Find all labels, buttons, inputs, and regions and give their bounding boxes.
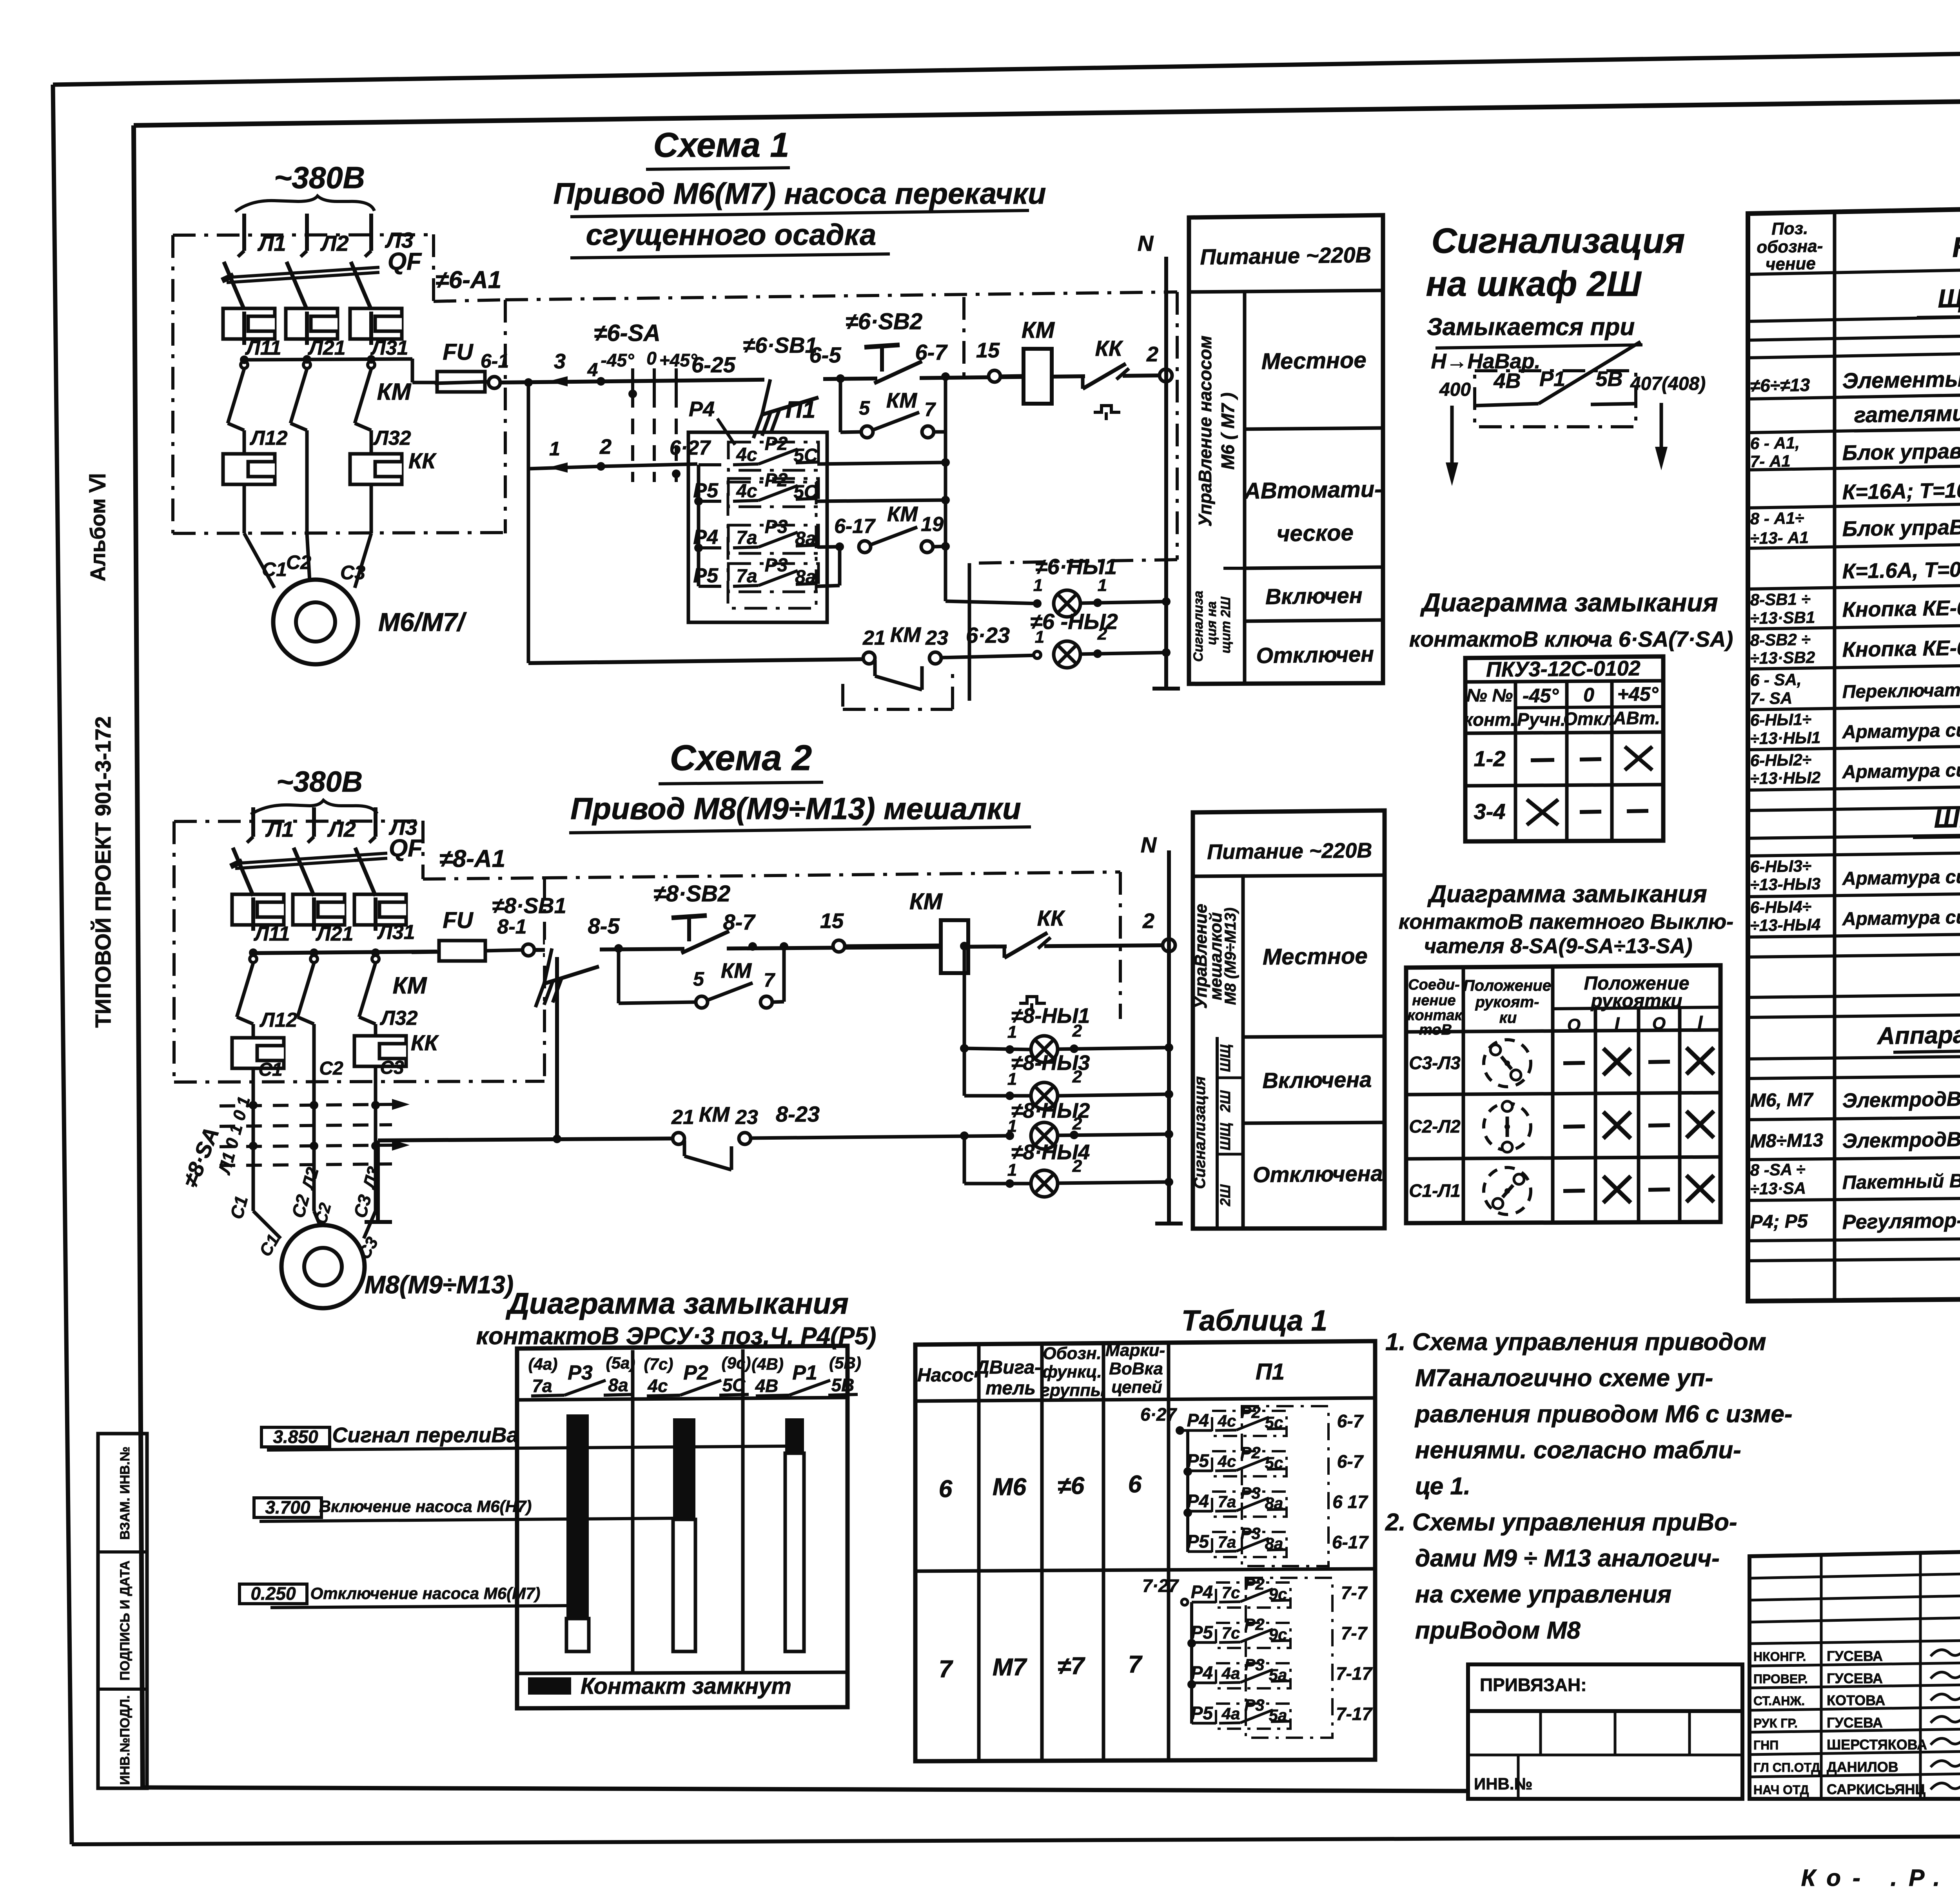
- svg-text:-45°: -45°: [601, 350, 634, 370]
- schema 2 lamp 8-HL2: [1005, 1099, 1173, 1149]
- svg-text:0.250: 0.250: [250, 1583, 296, 1604]
- svg-text:N: N: [1138, 231, 1154, 256]
- svg-text:Питание ~220В: Питание ~220В: [1200, 242, 1372, 269]
- schema 2 KM main contacts: [237, 955, 427, 1024]
- svg-text:Р3: Р3: [1244, 1655, 1264, 1674]
- svg-text:8-1: 8-1: [497, 915, 526, 938]
- svg-text:2: 2: [1142, 909, 1154, 933]
- svg-text:М7: М7: [993, 1654, 1027, 1681]
- svg-text:М6 ( М7 ): М6 ( М7 ): [1218, 393, 1238, 470]
- svg-text:Р4: Р4: [693, 526, 718, 549]
- svg-text:6-НЫ2÷: 6-НЫ2÷: [1750, 750, 1811, 770]
- svg-text:ГЛ СП.ОТД: ГЛ СП.ОТД: [1753, 1760, 1820, 1775]
- svg-text:Сигнализа: Сигнализа: [1191, 591, 1206, 662]
- svg-text:(9с): (9с): [722, 1354, 751, 1372]
- svg-text:Сигнализация: Сигнализация: [1432, 221, 1685, 261]
- wire to lamp rung 1: [946, 546, 1037, 604]
- signal to cabinet 2Sh title: [1426, 221, 1685, 304]
- svg-text:Р3: Р3: [1240, 1524, 1260, 1543]
- svg-text:М6: М6: [993, 1474, 1027, 1501]
- svg-text:15: 15: [820, 909, 844, 933]
- schema 2 rung wire 8-1 to 2: [534, 945, 1163, 950]
- svg-text:М6/М7/: М6/М7/: [378, 607, 467, 636]
- schema 2 supply brace: [251, 800, 377, 814]
- svg-text:4с: 4с: [736, 481, 757, 502]
- svg-text:О: О: [1652, 1014, 1666, 1033]
- svg-text:Наименование: Наименование: [1952, 227, 1960, 263]
- svg-text:Откл: Откл: [1563, 709, 1614, 729]
- svg-text:КМ: КМ: [377, 379, 412, 405]
- svg-text:7а: 7а: [1218, 1533, 1236, 1551]
- svg-text:Р3: Р3: [765, 555, 788, 576]
- svg-text:8-7: 8-7: [723, 910, 756, 934]
- dash-dot A1 boundary to control section (schema 2): [544, 872, 1120, 1019]
- svg-text:Л32: Л32: [379, 1007, 418, 1030]
- schema 2 thermal contact KK: [1004, 906, 1065, 1011]
- svg-text:КМ: КМ: [721, 959, 752, 983]
- aux contact 5 KM 7: [840, 377, 946, 547]
- node 6-5: [809, 343, 845, 383]
- component list table grid: [1748, 198, 1960, 1301]
- schema 2 phase stubs L1 L2 L3: [253, 807, 417, 841]
- svg-text:КМ: КМ: [1022, 317, 1055, 343]
- svg-text:3: 3: [554, 350, 566, 373]
- svg-text:6-7: 6-7: [1337, 1451, 1364, 1472]
- svg-text:КМ: КМ: [890, 623, 921, 647]
- svg-text:2: 2: [1146, 343, 1158, 366]
- svg-text:равления приводом М6 с изме-: равления приводом М6 с изме-: [1414, 1401, 1793, 1428]
- svg-text:ГУСЕВА: ГУСЕВА: [1827, 1670, 1883, 1686]
- svg-text:6-1: 6-1: [481, 350, 509, 372]
- svg-text:Местное: Местное: [1261, 347, 1367, 374]
- svg-text:≠6·SB1: ≠6·SB1: [743, 333, 817, 357]
- ERSU level lines and labels: [240, 1423, 785, 1608]
- svg-text:23: 23: [735, 1106, 758, 1129]
- neutral line N: [1138, 231, 1180, 689]
- svg-text:Контакт замкнут: Контакт замкнут: [581, 1673, 791, 1699]
- svg-text:407(408): 407(408): [1630, 373, 1706, 394]
- contact 15 - coil KM: [976, 317, 1055, 404]
- svg-text:Л11: Л11: [253, 923, 290, 945]
- svg-text:щит 2Ш: щит 2Ш: [1218, 596, 1233, 653]
- key 6-SA diagram title: [1409, 588, 1733, 651]
- svg-text:АВтомати-: АВтомати-: [1243, 477, 1382, 504]
- closes-at note: [1427, 314, 1642, 373]
- svg-text:СТ.АНЖ.: СТ.АНЖ.: [1753, 1694, 1805, 1708]
- svg-text:1: 1: [1098, 576, 1107, 595]
- svg-text:8-5: 8-5: [588, 914, 620, 938]
- node 4 junction: [587, 360, 605, 386]
- svg-text:5: 5: [859, 397, 870, 419]
- packet switch rows: [1409, 1040, 1714, 1215]
- svg-text:ПКУ3-12С-0102: ПКУ3-12С-0102: [1486, 656, 1641, 681]
- node 8-7: [723, 910, 757, 951]
- fuse FU: [435, 339, 509, 392]
- svg-text:(4а): (4а): [528, 1355, 558, 1373]
- svg-text:÷13·SB2: ÷13·SB2: [1750, 648, 1815, 667]
- svg-text:8-SB1 ÷: 8-SB1 ÷: [1750, 590, 1811, 609]
- svg-text:3.700: 3.700: [265, 1497, 310, 1517]
- svg-text:К=1.6А, Т=0,63А; цепь упраВлен: К=1.6А, Т=0,63А; цепь упраВления ~220В: [1842, 553, 1960, 583]
- svg-text:Кнопка КЕ-011У3 исп. 23 ТУ16-5: Кнопка КЕ-011У3 исп. 23 ТУ16-526.407-76: [1842, 591, 1960, 622]
- svg-text:2: 2: [1097, 624, 1107, 644]
- svg-text:2: 2: [1072, 1021, 1082, 1041]
- svg-text:5В: 5В: [1595, 367, 1622, 391]
- svg-text:21: 21: [671, 1106, 694, 1129]
- svg-text:19: 19: [921, 513, 944, 536]
- pushbutton 6-SB2 (NC with T actuator): [846, 309, 922, 386]
- wire rung 2 (1-2 to 6-27): [524, 378, 697, 473]
- svg-text:4а: 4а: [1221, 1704, 1240, 1723]
- svg-text:÷13·SB1: ÷13·SB1: [1750, 608, 1815, 627]
- svg-text:Р1: Р1: [1539, 367, 1565, 391]
- svg-text:Щит ШЩ: Щит ШЩ: [1938, 282, 1960, 313]
- svg-text:Шкаф 2 Ш: Шкаф 2 Ш: [1934, 802, 1960, 833]
- svg-text:ГУСЕВА: ГУСЕВА: [1827, 1715, 1883, 1731]
- svg-text:7: 7: [924, 399, 936, 421]
- component table rows text: [1750, 282, 1960, 1234]
- schema 2 bus to fuse 8-1: [249, 948, 437, 957]
- schema 2 lamp 8-HL1: [960, 942, 1173, 1062]
- svg-text:÷13-НЫ3: ÷13-НЫ3: [1750, 874, 1820, 894]
- svg-text:тель: тель: [985, 1378, 1036, 1399]
- svg-text:Поз.: Поз.: [1771, 219, 1808, 239]
- svg-text:6-7: 6-7: [915, 340, 948, 364]
- svg-text:М7аналогично схеме уп-: М7аналогично схеме уп-: [1415, 1365, 1713, 1392]
- svg-text:6-НЫ3÷: 6-НЫ3÷: [1750, 857, 1811, 876]
- svg-text:Р2: Р2: [765, 433, 788, 454]
- thermal element boxes row 2 (L12 L32) and KK: [223, 427, 437, 533]
- svg-text:ки: ки: [1499, 1009, 1517, 1026]
- svg-text:Р3: Р3: [765, 517, 788, 537]
- svg-text:Р3: Р3: [1244, 1696, 1264, 1714]
- svg-text:ПРОВЕР.: ПРОВЕР.: [1753, 1672, 1808, 1686]
- schema 1 title: [554, 125, 1046, 258]
- svg-text:Привод М6(М7) насоса перекачки: Привод М6(М7) насоса перекачки: [554, 177, 1046, 210]
- svg-text:ИНВ.№: ИНВ.№: [1474, 1775, 1532, 1793]
- svg-text:1: 1: [1035, 627, 1044, 647]
- wire rung 6-23 and lamp 6-HL2: [941, 563, 1171, 701]
- schema 2 block A1 boundary (dash-dot): [174, 821, 544, 1082]
- schema 2 circuit breaker QF: [230, 835, 423, 896]
- svg-text:Р5: Р5: [693, 564, 719, 587]
- svg-text:Кнопка КЕ-011У3 исп. 24 ТУ16-5: Кнопка КЕ-011У3 исп. 24 ТУ16-526.407-76: [1842, 631, 1960, 662]
- svg-text:≠6-А1: ≠6-А1: [436, 266, 501, 294]
- svg-text:6·27: 6·27: [670, 437, 711, 459]
- svg-text:Л1: Л1: [257, 231, 286, 256]
- svg-text:Арматура сигнальная АСЛ-11У2 Т: Арматура сигнальная АСЛ-11У2 ТУ16-535.68…: [1842, 755, 1960, 783]
- circuit breaker QF: [222, 248, 422, 310]
- overload heater boxes row 1 (L11 L21 L31): [223, 308, 408, 359]
- svg-text:КМ: КМ: [886, 389, 917, 412]
- svg-text:6: 6: [1128, 1471, 1142, 1498]
- svg-text:дами М9 ÷ М13 аналогич-: дами М9 ÷ М13 аналогич-: [1415, 1545, 1720, 1572]
- svg-text:FU: FU: [443, 339, 474, 365]
- svg-text:М8(М9÷М13): М8(М9÷М13): [365, 1271, 514, 1299]
- ERSU closing diagram title: [476, 1287, 877, 1350]
- svg-text:(5В): (5В): [829, 1354, 861, 1372]
- svg-text:8-23: 8-23: [776, 1102, 820, 1126]
- svg-text:≠8·SA: ≠8·SA: [178, 1124, 224, 1190]
- svg-text:7: 7: [1128, 1651, 1143, 1678]
- svg-text:5В: 5В: [831, 1375, 855, 1395]
- svg-text:Р3: Р3: [568, 1361, 593, 1384]
- svg-text:6-25: 6-25: [691, 352, 736, 377]
- svg-text:ВЗАМ. ИНВ.№: ВЗАМ. ИНВ.№: [118, 1447, 132, 1540]
- svg-text:8-SB2 ÷: 8-SB2 ÷: [1750, 630, 1811, 649]
- svg-text:Ручн.: Ручн.: [1517, 709, 1566, 730]
- svg-text:Ко- .Р. . Е Г .Р: Ко- .Р. . Е Г .Р: [1801, 1865, 1960, 1891]
- ERSU level bars: [566, 1414, 804, 1651]
- svg-text:С2: С2: [288, 1192, 314, 1220]
- svg-text:7с: 7с: [1222, 1624, 1240, 1642]
- svg-text:контактоВ ключа 6·SA(7·SA): контактоВ ключа 6·SA(7·SA): [1409, 627, 1733, 651]
- svg-text:Л12: Л12: [259, 1009, 298, 1031]
- svg-text:рукоятки: рукоятки: [1590, 991, 1682, 1012]
- svg-text:Блок управления РБУ5101-03А2Р,: Блок управления РБУ5101-03А2Р, ~380В.: [1842, 435, 1960, 465]
- svg-text:7а: 7а: [1218, 1492, 1236, 1511]
- svg-text:7-7: 7-7: [1341, 1583, 1368, 1603]
- svg-text:ческое: ческое: [1276, 520, 1354, 547]
- svg-text:Элементы управления электрод: Элементы управления электродВи-: [1842, 362, 1960, 393]
- svg-text:7-17: 7-17: [1336, 1663, 1373, 1684]
- svg-text:≠8·SB2: ≠8·SB2: [653, 881, 730, 906]
- svg-text:7·27: 7·27: [1142, 1575, 1179, 1596]
- svg-text:К=16А; Т=10А; цепь упраВления,: К=16А; Т=10А; цепь упраВления,~ 220В: [1842, 474, 1960, 504]
- svg-text:4В: 4В: [1493, 369, 1521, 393]
- svg-text:Л2: Л2: [298, 1165, 322, 1192]
- svg-text:ПОДПИСЬ И ДАТА: ПОДПИСЬ И ДАТА: [118, 1561, 132, 1680]
- svg-text:ПРИВЯЗАН:: ПРИВЯЗАН:: [1480, 1675, 1587, 1695]
- svg-text:≠6÷≠13: ≠6÷≠13: [1750, 375, 1810, 396]
- svg-text:I: I: [1698, 1012, 1703, 1032]
- svg-text:Л3: Л3: [359, 1164, 383, 1191]
- svg-text:С3: С3: [340, 562, 365, 584]
- svg-text:7: 7: [939, 1656, 953, 1683]
- ERSU chart box: [517, 1346, 848, 1708]
- svg-text:КОТОВА: КОТОВА: [1827, 1692, 1885, 1708]
- title block privyazan table: [1468, 1664, 1742, 1799]
- svg-text:Переключатель ПКУ3-12С-0102 ТУ: Переключатель ПКУ3-12С-0102 ТУ16-526.047…: [1842, 674, 1960, 702]
- svg-text:Л11: Л11: [245, 337, 281, 359]
- svg-text:Отключена: Отключена: [1253, 1161, 1383, 1187]
- svg-text:≠6·SB2: ≠6·SB2: [846, 309, 922, 334]
- svg-text:ШЕРСТЯКОВА: ШЕРСТЯКОВА: [1827, 1737, 1927, 1753]
- svg-text:6-7: 6-7: [1337, 1411, 1364, 1431]
- svg-text:С1: С1: [258, 1059, 282, 1080]
- notes text block: [1385, 1329, 1793, 1644]
- svg-text:приВодом М8: приВодом М8: [1415, 1617, 1581, 1644]
- svg-text:7с: 7с: [1222, 1583, 1240, 1602]
- svg-text:Диаграмма замыкания: Диаграмма замыкания: [1420, 588, 1718, 617]
- svg-text:23: 23: [925, 627, 948, 649]
- svg-text:Л32: Л32: [373, 427, 411, 450]
- svg-text:ДВига-: ДВига-: [974, 1357, 1041, 1378]
- schema 2 motor M8: [226, 1192, 514, 1308]
- svg-text:÷13·SA: ÷13·SA: [1750, 1179, 1806, 1198]
- selector switch 6-SA (dashed contacts): [594, 320, 736, 482]
- svg-text:FU: FU: [443, 908, 474, 933]
- schema 2 overload boxes row1: [232, 894, 415, 945]
- svg-text:2: 2: [1072, 1157, 1082, 1176]
- svg-text:КК: КК: [408, 448, 437, 473]
- svg-text:контактоВ пакетного Выклю-: контактоВ пакетного Выклю-: [1399, 910, 1733, 934]
- svg-text:М8 (М9÷М13): М8 (М9÷М13): [1222, 908, 1239, 1005]
- svg-text:Таблица 1: Таблица 1: [1181, 1304, 1327, 1337]
- svg-text:С2-Л2: С2-Л2: [1409, 1116, 1461, 1137]
- svg-text:П1: П1: [1256, 1359, 1285, 1385]
- svg-text:21: 21: [862, 627, 886, 649]
- table 1 mini contact chains (pump 6): [1140, 1403, 1369, 1566]
- svg-text:Замыкается при: Замыкается при: [1427, 314, 1635, 341]
- svg-text:2: 2: [1072, 1067, 1082, 1086]
- svg-text:С1-Л1: С1-Л1: [1409, 1180, 1460, 1201]
- packet switch contact table: [1406, 965, 1720, 1223]
- svg-text:6·23: 6·23: [966, 623, 1010, 647]
- component table headers: [1757, 219, 1960, 274]
- svg-text:4В: 4В: [755, 1376, 779, 1396]
- svg-text:8 - А1÷: 8 - А1÷: [1750, 509, 1804, 528]
- terminal block P1 outline: [688, 397, 827, 622]
- bottom smudge text: [1801, 1865, 1960, 1891]
- signal lamp 6-HL1: [1033, 554, 1171, 617]
- svg-text:1. Схема управления приводом: 1. Схема управления приводом: [1385, 1329, 1766, 1356]
- svg-text:группы: группы: [1040, 1381, 1105, 1400]
- svg-text:Отключение насоса М6(М7): Отключение насоса М6(М7): [310, 1584, 541, 1603]
- svg-text:Включен: Включен: [1265, 583, 1363, 609]
- svg-text:2Ш: 2Ш: [1217, 1090, 1233, 1113]
- svg-text:7: 7: [764, 969, 775, 991]
- svg-text:ВоВка: ВоВка: [1109, 1359, 1163, 1378]
- schema 2 thermal boxes row2 and KK: [232, 1007, 439, 1082]
- svg-text:Р2: Р2: [1240, 1443, 1260, 1462]
- schema 2 aux contact 5 KM 7: [619, 942, 788, 1008]
- svg-text:5: 5: [693, 968, 704, 990]
- svg-text:4с: 4с: [1218, 1452, 1236, 1470]
- svg-text:Р4: Р4: [1191, 1582, 1213, 1602]
- svg-text:РУК ГР.: РУК ГР.: [1753, 1716, 1798, 1730]
- svg-text:це 1.: це 1.: [1415, 1473, 1470, 1500]
- svg-text:Регулятор- сигнализатор уроВня: Регулятор- сигнализатор уроВня ЭРСУ-3: [1842, 1204, 1960, 1234]
- svg-text:0: 0: [646, 348, 657, 368]
- svg-text:3.850: 3.850: [273, 1427, 318, 1447]
- svg-text:6-17: 6-17: [1332, 1532, 1369, 1552]
- svg-text:конт.: конт.: [1464, 709, 1515, 730]
- svg-text:Л12: Л12: [249, 427, 288, 450]
- schema 2 title: [569, 738, 1031, 833]
- svg-text:7а: 7а: [736, 566, 757, 587]
- table 1 mini contact chains (pump 7): [1142, 1575, 1373, 1738]
- svg-text:Р5: Р5: [1187, 1450, 1210, 1471]
- packet switch 8-SA (dashed rows): [178, 1082, 410, 1211]
- svg-text:Р4: Р4: [1191, 1662, 1213, 1683]
- svg-text:8а: 8а: [608, 1375, 628, 1395]
- svg-text:чение: чение: [1765, 254, 1816, 274]
- svg-text:Л21: Л21: [315, 923, 354, 945]
- thermal relay contact KK: [1083, 336, 1129, 420]
- svg-text:М6, М7: М6, М7: [1750, 1089, 1814, 1111]
- svg-text:QF: QF: [388, 248, 422, 275]
- ERSU legend contact closed: [528, 1673, 791, 1699]
- svg-text:КК: КК: [1095, 336, 1123, 361]
- level relay contacts in P1 (4 rows): [670, 433, 950, 592]
- svg-text:(5а): (5а): [606, 1354, 635, 1372]
- svg-text:на шкаф 2Ш: на шкаф 2Ш: [1426, 265, 1642, 304]
- svg-text:ШЩ: ШЩ: [1217, 1044, 1233, 1072]
- svg-text:Л1: Л1: [265, 817, 294, 841]
- svg-text:÷13-НЫ4: ÷13-НЫ4: [1750, 915, 1820, 935]
- svg-text:Р5: Р5: [1191, 1622, 1214, 1642]
- svg-text:С3: С3: [380, 1057, 404, 1078]
- svg-text:≠7: ≠7: [1058, 1653, 1085, 1680]
- svg-text:2. Схемы управления приВо-: 2. Схемы управления приВо-: [1385, 1509, 1737, 1536]
- svg-text:чателя 8-SА(9-SА÷13-SА): чателя 8-SА(9-SА÷13-SА): [1424, 934, 1693, 958]
- svg-text:1: 1: [549, 438, 560, 460]
- svg-text:О: О: [1567, 1015, 1581, 1035]
- svg-text:~380В: ~380В: [274, 160, 365, 195]
- svg-text:Арматура сигнальная АСЛ-11У2: Арматура сигнальная АСЛ-11У2 ТУ16-535.68…: [1842, 861, 1960, 889]
- svg-text:Р4: Р4: [689, 397, 715, 421]
- schema 2 return line down from 8-1: [365, 946, 674, 1222]
- svg-text:6 - А1,: 6 - А1,: [1750, 433, 1800, 453]
- svg-text:Включена: Включена: [1262, 1067, 1372, 1093]
- svg-text:Сигнал перелиВа: Сигнал перелиВа: [332, 1423, 518, 1447]
- pushbutton 8-SB2: [653, 881, 730, 955]
- svg-text:Р5: Р5: [1191, 1703, 1214, 1723]
- svg-text:7а: 7а: [532, 1376, 552, 1396]
- svg-text:1: 1: [1007, 1070, 1017, 1089]
- svg-text:ция на: ция на: [1204, 601, 1219, 645]
- packet switch diagram title: [1399, 881, 1733, 958]
- pushbutton 6-SB1: [743, 333, 823, 438]
- svg-text:÷13- А1: ÷13- А1: [1750, 528, 1809, 547]
- svg-text:С2: С2: [286, 551, 311, 573]
- svg-text:нениями. согласно табли-: нениями. согласно табли-: [1415, 1437, 1741, 1464]
- svg-text:15: 15: [976, 339, 1000, 362]
- svg-text:÷13·НЫ2: ÷13·НЫ2: [1750, 768, 1820, 788]
- svg-text:Р2: Р2: [683, 1361, 708, 1384]
- svg-text:7- А1: 7- А1: [1750, 451, 1790, 471]
- node 2 at N: [1146, 343, 1172, 382]
- svg-text:Р5: Р5: [693, 479, 719, 502]
- svg-text:ГНП: ГНП: [1753, 1738, 1779, 1752]
- svg-text:АВт.: АВт.: [1613, 708, 1660, 728]
- svg-text:Местное: Местное: [1263, 943, 1368, 970]
- svg-text:ЭлектродВигатель А02·32·2; ~38: ЭлектродВигатель А02·32·2; ~380В: 4кВт: [1842, 1082, 1960, 1112]
- svg-text:÷13·НЫ1: ÷13·НЫ1: [1750, 728, 1820, 748]
- svg-text:С3: С3: [350, 1192, 376, 1220]
- node 6-7: [915, 340, 950, 381]
- svg-text:6-5: 6-5: [809, 343, 842, 367]
- svg-text:КМ: КМ: [909, 889, 943, 914]
- svg-text:КК: КК: [1037, 906, 1065, 930]
- svg-text:функц.: функц.: [1042, 1362, 1102, 1381]
- svg-text:Диаграмма замыкания: Диаграмма замыкания: [505, 1287, 849, 1320]
- svg-text:Сигнализация: Сигнализация: [1191, 1076, 1209, 1189]
- svg-text:П1: П1: [786, 397, 816, 423]
- svg-text:Пакетный Выключатель ПВ3-10;~3: Пакетный Выключатель ПВ3-10;~380В. исп. …: [1842, 1165, 1960, 1193]
- svg-text:Блок упраВления РБУ5101- 03А2Б: Блок упраВления РБУ5101- 03А2Б, ~380В: [1842, 511, 1960, 541]
- left margin stamp strip: [98, 1434, 147, 1788]
- aux contact 6-17 KM 19: [834, 502, 950, 553]
- svg-text:Альбом Ⅵ: Альбом Ⅵ: [86, 473, 110, 582]
- svg-text:САРКИСЬЯНЦ: САРКИСЬЯНЦ: [1827, 1781, 1926, 1797]
- svg-text:Л31: Л31: [370, 337, 408, 359]
- svg-text:3-4: 3-4: [1474, 799, 1506, 824]
- motor M6/M7: [244, 533, 467, 664]
- svg-text:НКОНГР.: НКОНГР.: [1753, 1650, 1806, 1664]
- svg-text:6: 6: [939, 1476, 953, 1503]
